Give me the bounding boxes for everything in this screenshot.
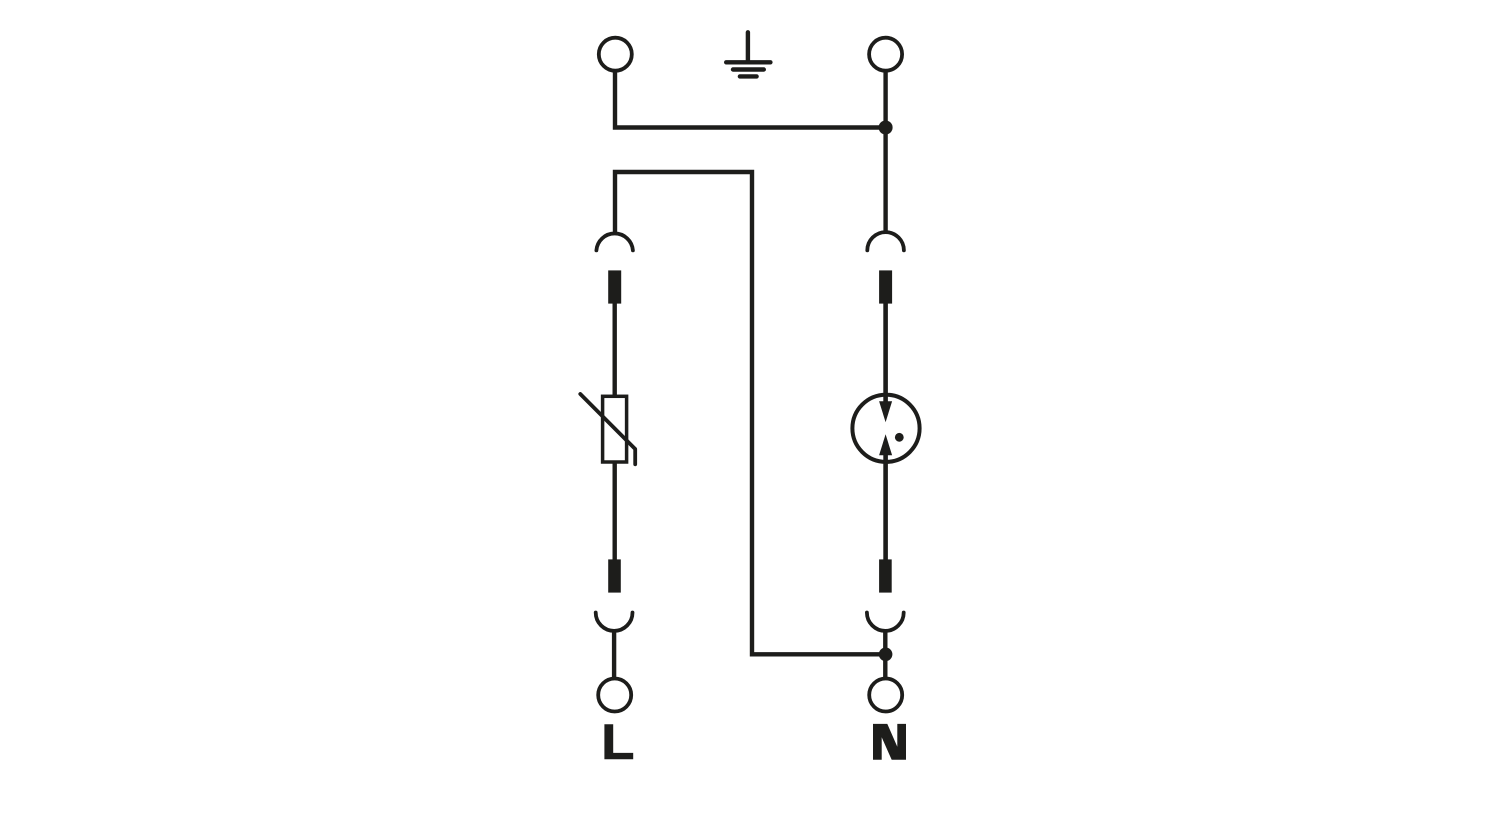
wire: arc to bottom junction and N terminal <box>883 631 887 678</box>
thermal disconnect bar L branch (bottom) <box>608 559 621 592</box>
wire: top-left terminal down and across to N branch <box>615 71 886 128</box>
spark gap gas-filled indicator dot <box>895 433 904 442</box>
spark gap U2 circle <box>852 395 919 462</box>
spark gap bottom electrode arrow <box>879 434 892 455</box>
thermal disconnect bar N branch (bottom) <box>879 559 892 592</box>
node junction dot top <box>879 121 893 135</box>
disconnect contact arc L branch (top) <box>596 233 633 250</box>
varistor diagonal stroke <box>580 394 635 464</box>
wire: top-right terminal down N branch <box>883 71 887 234</box>
terminal circle top-right (N input terminal) <box>869 38 902 71</box>
spark gap top electrode arrow <box>879 401 892 422</box>
disconnect contact arc N branch (top) <box>867 232 904 250</box>
terminal circle bottom-right (N terminal) <box>869 679 902 712</box>
wire: spark gap to lower bar <box>883 454 888 560</box>
terminal circle bottom-left (L terminal) <box>598 679 631 712</box>
wire: bar to varistor <box>613 303 617 397</box>
thermal disconnect bar N branch (top) <box>879 270 892 303</box>
wire: L branch top across and down centre to bottom junction <box>615 172 886 654</box>
node junction dot bottom <box>879 648 893 662</box>
disconnect contact arc N branch (bottom) <box>867 613 904 631</box>
terminal circle top-left (protective earth terminal) <box>599 38 632 71</box>
ground <box>726 32 770 76</box>
wire: varistor to lower bar <box>613 462 617 560</box>
wire: arc to L terminal <box>612 631 616 678</box>
disconnect contact arc L branch (bottom) <box>596 613 633 631</box>
wire: bar into spark gap <box>883 303 888 403</box>
label L <box>604 724 633 759</box>
thermal disconnect bar L branch (top) <box>608 270 621 303</box>
label N <box>873 724 906 760</box>
varistor body <box>603 396 627 462</box>
